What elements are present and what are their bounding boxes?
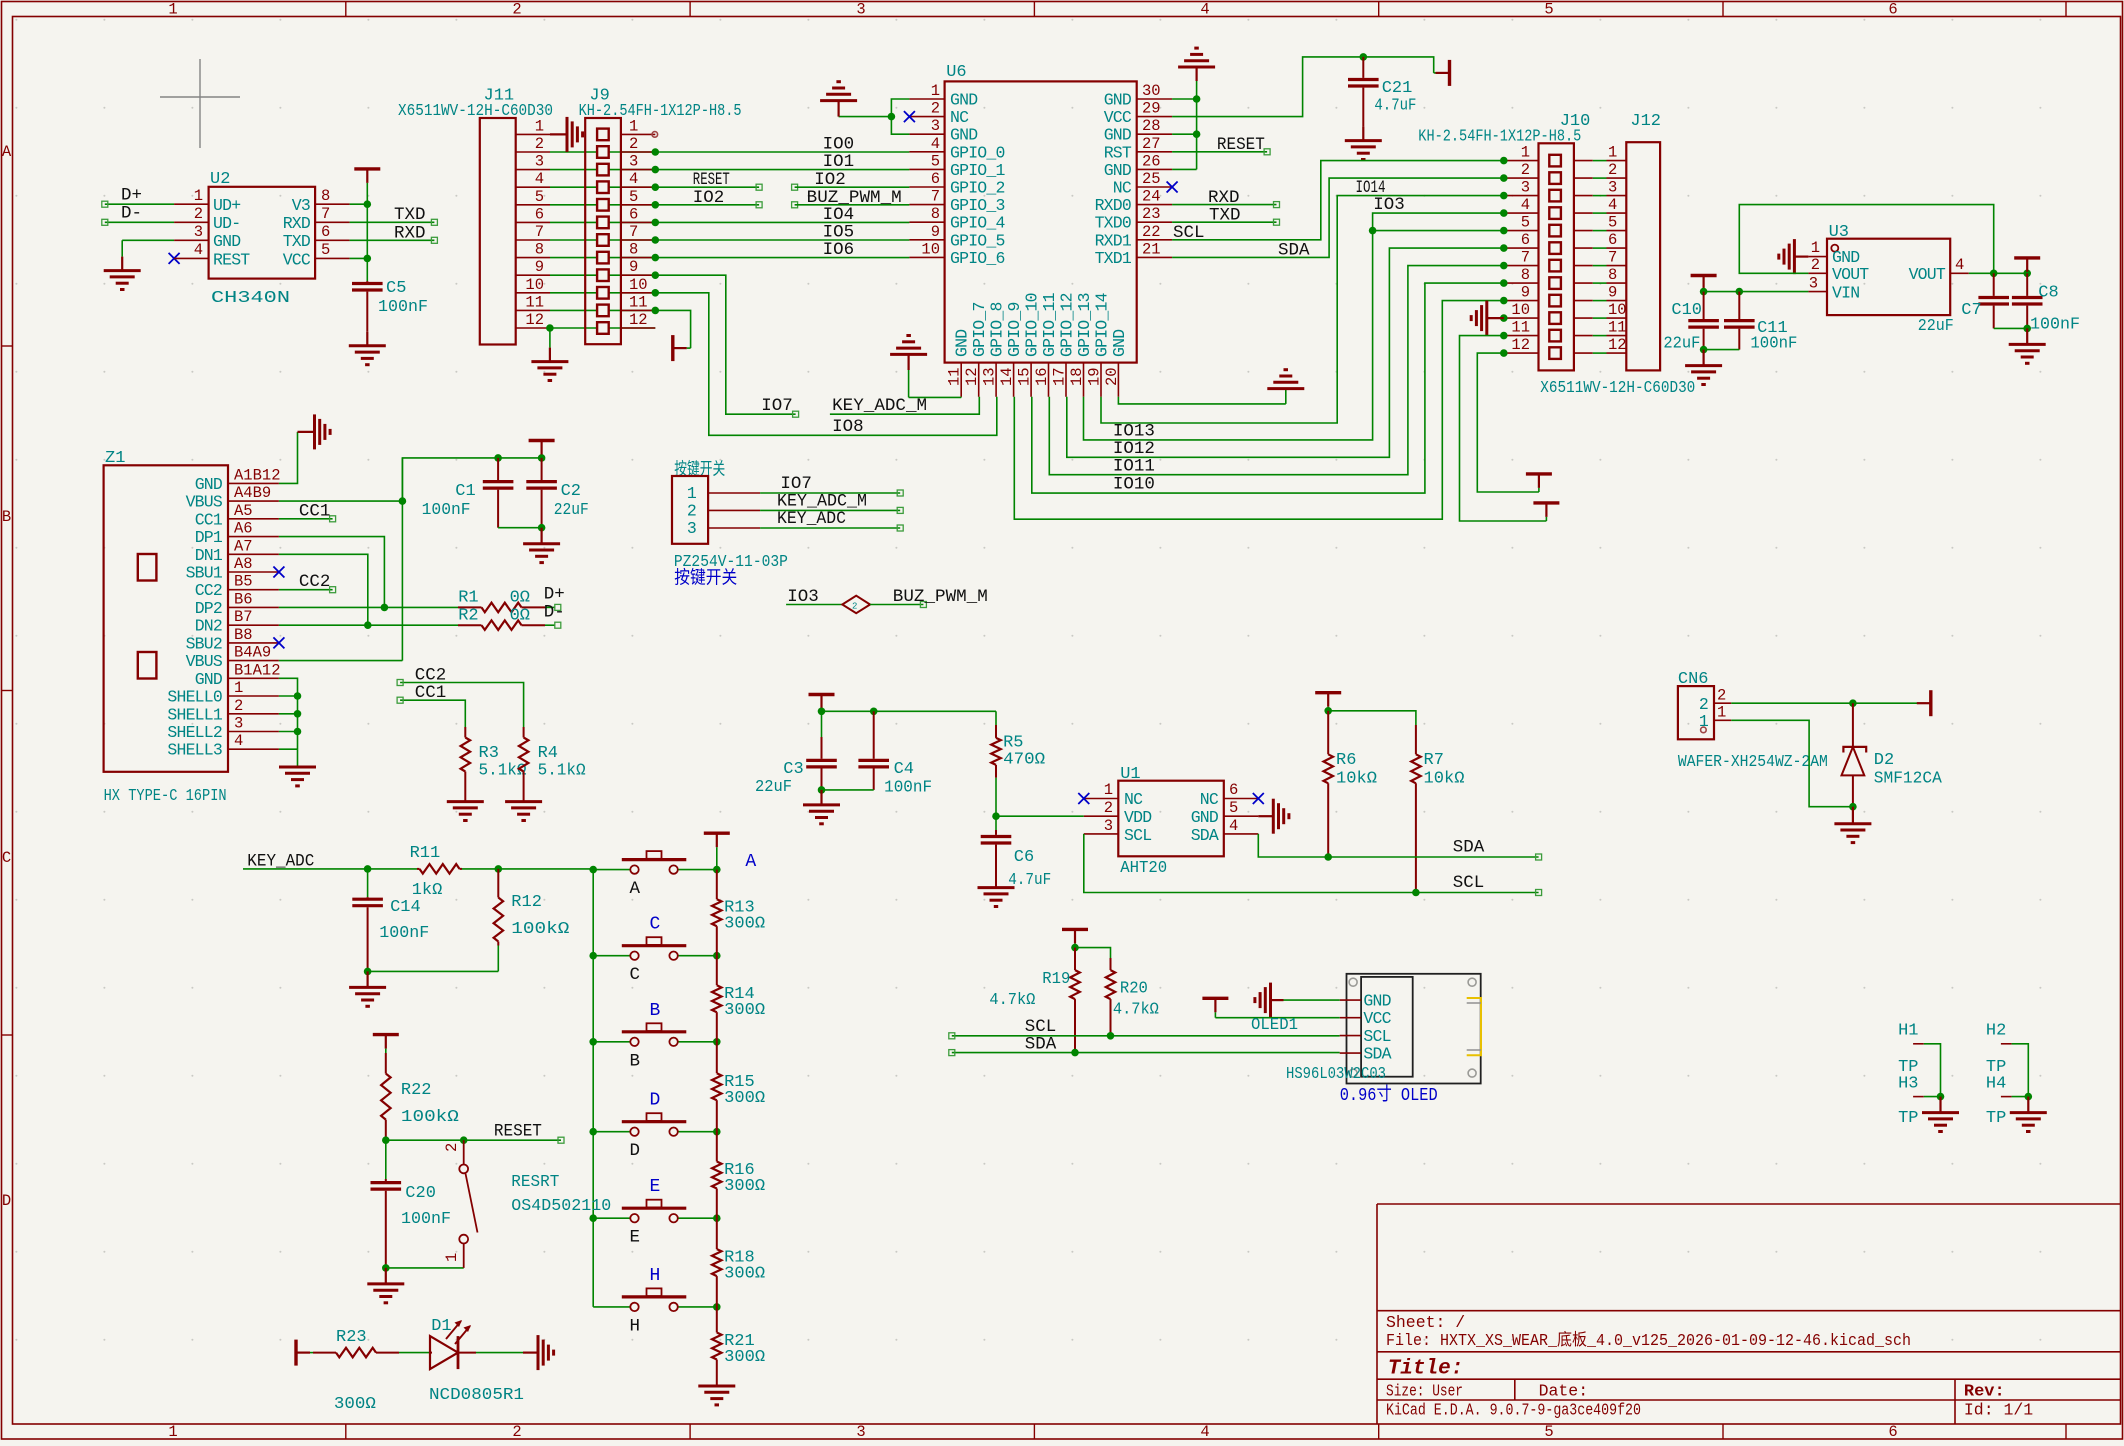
J11 pin numbers [525, 117, 544, 329]
U1 reference [1120, 765, 1140, 784]
svg-text:GND: GND [1191, 808, 1219, 827]
ground below SHELL [279, 749, 316, 786]
connector J11 reference [484, 87, 515, 106]
svg-text:SBU2: SBU2 [186, 634, 222, 653]
label IO2 right [814, 170, 846, 190]
R7 reference [1424, 751, 1444, 770]
svg-text:4: 4 [1955, 256, 1964, 274]
junction VDD node [992, 812, 1000, 820]
svg-text:C3: C3 [783, 760, 803, 779]
wire C3-C4 bottom [822, 789, 874, 791]
svg-text:KEY_ADC: KEY_ADC [777, 509, 846, 529]
svg-text:3: 3 [1608, 179, 1617, 197]
wire CC2 to R4 [397, 680, 523, 728]
wire DN1 [279, 554, 368, 625]
svg-text:GPIO_11: GPIO_11 [1040, 292, 1059, 357]
svg-text:2: 2 [931, 100, 940, 118]
svg-text:GPIO_8: GPIO_8 [988, 302, 1007, 357]
svg-text:SCL: SCL [1124, 826, 1151, 845]
svg-text:C: C [630, 965, 641, 985]
title date [1539, 1382, 1589, 1401]
svg-text:TXD1: TXD1 [1095, 249, 1132, 268]
svg-text:2: 2 [1104, 799, 1113, 817]
resistor R21 [712, 1307, 722, 1385]
svg-text:22uF: 22uF [554, 501, 589, 520]
svg-text:6: 6 [629, 205, 638, 223]
wire D- to U2 pin2 [102, 219, 174, 225]
svg-text:29: 29 [1142, 100, 1161, 118]
label D+ [121, 186, 142, 206]
svg-text:D: D [650, 1091, 661, 1111]
left rail buttons [592, 869, 594, 1307]
junction C3 top [818, 708, 826, 716]
svg-text:R6: R6 [1336, 751, 1356, 770]
svg-text:RXD1: RXD1 [1095, 231, 1132, 250]
svg-text:NC: NC [1124, 790, 1143, 809]
label B blue [650, 1001, 661, 1021]
svg-text:C5: C5 [386, 279, 406, 298]
svg-text:Id: 1/1: Id: 1/1 [1964, 1401, 2033, 1420]
svg-text:H3: H3 [1898, 1074, 1918, 1093]
svg-text:OS4D502110: OS4D502110 [511, 1197, 611, 1216]
label IO8 [832, 417, 864, 437]
Z1 pin names [167, 475, 223, 760]
svg-text:UD-: UD- [213, 214, 240, 233]
svg-text:3: 3 [629, 153, 638, 171]
U6 right pin numbers [1142, 82, 1161, 258]
label CC1 mid [415, 683, 447, 703]
resistor R15 [712, 1042, 722, 1132]
net tie diamond [842, 596, 870, 614]
origin crosshair [160, 59, 240, 148]
R1 value 0 [510, 589, 530, 608]
label SDA u6 [1278, 240, 1310, 260]
junction V3 rail [364, 200, 372, 208]
svg-text:R2: R2 [458, 607, 478, 626]
wire SDA U6.21 to J10.2 [1172, 178, 1504, 257]
switch pin1 number [443, 1253, 461, 1262]
svg-text:7: 7 [931, 188, 940, 206]
svg-text:13: 13 [981, 367, 999, 386]
svg-text:5: 5 [629, 188, 638, 206]
label IO13 [1113, 421, 1155, 441]
R2 value 0 [510, 607, 530, 626]
svg-text:H4: H4 [1986, 1074, 2006, 1093]
J10 value KH-2.54FH-1X12P-H8.5 [1418, 128, 1581, 147]
C8 reference [2038, 284, 2058, 303]
svg-text:12: 12 [629, 311, 648, 329]
U2 pin numbers [194, 187, 331, 259]
svg-text:SHELL3: SHELL3 [167, 741, 222, 760]
C10 value 22uF [1663, 335, 1700, 354]
U1 value AHT20 [1120, 859, 1167, 878]
wire U6 pin30 GND [1172, 98, 1197, 100]
ground flag right of D1 [523, 1335, 554, 1370]
svg-text:B7: B7 [234, 608, 253, 626]
svg-text:H: H [630, 1316, 641, 1336]
label IO5 [823, 223, 855, 243]
wire IO1 J9.3-U6.5 [655, 169, 909, 171]
C5 reference [386, 279, 406, 298]
U1 pin names [1124, 790, 1219, 845]
svg-text:B1A12: B1A12 [234, 661, 281, 679]
svg-text:DN2: DN2 [195, 617, 222, 636]
wire VDD to U1 [996, 815, 1084, 817]
display OLED1 [1340, 974, 1481, 1084]
U3 pin names [1832, 248, 1946, 303]
svg-text:2: 2 [1811, 256, 1820, 274]
svg-text:A: A [2, 143, 12, 161]
svg-text:22uF: 22uF [1663, 335, 1700, 354]
no-connect SBU1 [273, 567, 284, 578]
svg-text:V3: V3 [292, 196, 310, 215]
svg-text:4: 4 [629, 170, 638, 188]
svg-text:4: 4 [234, 732, 243, 750]
power bar right of CN6 [1917, 690, 1931, 716]
svg-text:VBUS: VBUS [186, 493, 223, 512]
C6 reference [1014, 848, 1034, 867]
svg-text:GPIO_1: GPIO_1 [950, 161, 1006, 180]
junction C8 top [2023, 270, 2031, 278]
junction RESET node [382, 1136, 390, 1144]
R4 value 5.1k [538, 762, 586, 781]
R20 reference [1120, 980, 1148, 999]
wires button left contacts [593, 870, 630, 1307]
svg-text:3: 3 [535, 153, 544, 171]
svg-text:GPIO_2: GPIO_2 [950, 179, 1005, 198]
svg-text:4: 4 [1200, 1423, 1209, 1441]
power flag above R6 [1315, 693, 1341, 711]
label TXD right [1209, 206, 1241, 226]
switch RESRT [459, 1140, 477, 1268]
svg-text:D1: D1 [431, 1317, 451, 1336]
junction D2 bottom [1849, 803, 1857, 811]
label KEY_ADC sw [777, 509, 846, 529]
R4 reference [538, 744, 558, 763]
svg-text:R23: R23 [336, 1328, 367, 1347]
C7 value 22uF [1918, 317, 1954, 336]
wire IO7 from J9.9 [655, 275, 798, 417]
svg-text:100nF: 100nF [1750, 335, 1797, 354]
junction C10 VIN [1700, 288, 1708, 296]
wire KEY_ADC_M U6 pin12 [830, 397, 979, 414]
R21 value 300 [724, 1348, 765, 1367]
C21 reference [1382, 79, 1413, 98]
wire TXD from U6 [1172, 219, 1279, 225]
resistor R5 [991, 711, 1001, 816]
svg-text:SHELL0: SHELL0 [167, 688, 222, 707]
label KEY_ADC_M sw [777, 492, 867, 512]
svg-text:D-: D- [544, 602, 565, 622]
svg-text:300Ω: 300Ω [724, 1177, 765, 1196]
svg-text:2: 2 [512, 1, 521, 19]
R14 reference [724, 985, 755, 1004]
label E blue [650, 1177, 661, 1197]
svg-text:28: 28 [1142, 117, 1161, 135]
svg-text:U2: U2 [210, 170, 230, 189]
wire VBUS A4B9 [279, 500, 403, 502]
power flag above R22 [373, 1035, 399, 1053]
svg-text:B8: B8 [234, 626, 253, 644]
svg-text:GND: GND [1110, 329, 1129, 357]
wire TXD from U2 RXD [350, 219, 438, 225]
svg-text:2: 2 [1717, 687, 1726, 705]
svg-text:3: 3 [234, 715, 243, 733]
svg-text:5: 5 [1521, 214, 1530, 232]
inverted ground U6 pin20 [1267, 370, 1304, 404]
wire U6 pin14 to J10.9 [1014, 301, 1504, 520]
svg-text:23: 23 [1142, 205, 1161, 223]
PZ254V field label [674, 460, 725, 481]
resistor R13 [712, 870, 722, 956]
wire D+ to U2 pin1 [102, 201, 174, 207]
svg-text:6: 6 [1888, 1423, 1897, 1441]
R19 value 4.7k [989, 991, 1035, 1010]
svg-text:C: C [2, 849, 11, 867]
junction D2 top [1849, 699, 1857, 707]
wire IO5 J9.7-U6.9 [655, 239, 909, 241]
J11 value X6511WV-12H-C60D30 [398, 102, 553, 121]
svg-text:8: 8 [321, 187, 330, 205]
ground below R3 [447, 782, 484, 821]
R20 value 4.7k [1113, 1001, 1159, 1020]
svg-text:AHT20: AHT20 [1120, 859, 1167, 878]
C8 value 100nF [2030, 316, 2080, 335]
junction R19 SDA [1071, 1049, 1079, 1057]
label E small [630, 1228, 641, 1248]
svg-text:REST: REST [213, 251, 250, 270]
ground below J11 pin12 [531, 348, 568, 381]
label BUZ_PWM_M upper [807, 188, 902, 208]
svg-text:SDA: SDA [1278, 240, 1310, 260]
svg-text:C2: C2 [561, 482, 581, 501]
svg-text:VIN: VIN [1832, 284, 1859, 303]
svg-text:GPIO_12: GPIO_12 [1058, 293, 1077, 357]
power flag above C3 [809, 695, 835, 712]
wire IO0 J9.2-U6.4 [655, 151, 909, 153]
wire RESET from J9.4 [655, 184, 762, 190]
wire R6-R7 top rail [1328, 711, 1416, 725]
wire CN6 pin1 loop [1731, 720, 1853, 806]
svg-text:U1: U1 [1120, 765, 1140, 784]
PZ254V description blue [674, 568, 737, 590]
svg-text:4: 4 [1608, 196, 1617, 214]
C1 reference [455, 482, 475, 501]
svg-text:11: 11 [946, 367, 964, 386]
svg-text:GPIO_10: GPIO_10 [1023, 293, 1042, 357]
wire J10.11 to power [1460, 336, 1547, 521]
connector CN6 [1678, 686, 1731, 739]
svg-text:WAFER-XH254WZ-2AM: WAFER-XH254WZ-2AM [1678, 753, 1828, 772]
svg-text:IO6: IO6 [823, 240, 855, 260]
svg-text:C10: C10 [1671, 301, 1702, 320]
svg-text:4.7uF: 4.7uF [1008, 871, 1051, 890]
svg-text:12: 12 [963, 367, 981, 386]
svg-text:1: 1 [234, 679, 243, 697]
junction C10 bottom [1700, 346, 1708, 354]
svg-text:3: 3 [856, 1423, 865, 1441]
svg-text:GND: GND [950, 91, 978, 110]
junction DP joint [381, 604, 389, 612]
svg-text:5: 5 [931, 152, 940, 170]
svg-text:3: 3 [1521, 179, 1530, 197]
svg-text:SDA: SDA [1025, 1034, 1057, 1054]
wire U2 V3 to rail [350, 203, 368, 205]
wire U3 VOUT loop [1739, 205, 1993, 274]
svg-text:D+: D+ [121, 186, 142, 206]
svg-text:GPIO_7: GPIO_7 [970, 302, 989, 357]
svg-text:20: 20 [1103, 367, 1121, 386]
switch D [622, 1113, 687, 1136]
R3 reference [479, 744, 499, 763]
power flag above C5 rail [354, 169, 380, 204]
label D- [121, 204, 142, 224]
junction IO3 branch [1369, 227, 1377, 235]
svg-text:14: 14 [998, 367, 1016, 386]
svg-text:1: 1 [168, 1423, 177, 1441]
svg-text:9: 9 [1608, 284, 1617, 302]
svg-text:10: 10 [629, 276, 648, 294]
power flag at J10.11 feed [1533, 503, 1559, 521]
no-connect U6 pin25 [1167, 182, 1178, 193]
U3 reference [1829, 223, 1849, 242]
svg-text:6: 6 [931, 170, 940, 188]
svg-text:CN6: CN6 [1678, 670, 1709, 689]
svg-text:7: 7 [629, 223, 638, 241]
resistor R19 [1070, 948, 1080, 1053]
svg-text:C6: C6 [1014, 848, 1034, 867]
R11 reference [410, 844, 441, 863]
label RESET right [1217, 135, 1265, 155]
label D- r2 [544, 602, 565, 622]
svg-text:File: HXTX_XS_WEAR_底板_4.0_v125: File: HXTX_XS_WEAR_底板_4.0_v125_2026-01-0… [1386, 1330, 1911, 1350]
svg-text:7: 7 [535, 223, 544, 241]
svg-text:12: 12 [525, 311, 544, 329]
wires J11 to J9 rows [550, 152, 655, 328]
testpoint H3 [1898, 1074, 1944, 1128]
svg-text:5: 5 [1229, 799, 1238, 817]
wire U6 pin11 gnd [909, 396, 962, 399]
svg-text:300Ω: 300Ω [724, 1348, 765, 1367]
wire DP1 [279, 537, 385, 608]
resistor R11 [417, 864, 593, 874]
power flag above R19 [1062, 929, 1088, 947]
C11 reference [1757, 319, 1788, 338]
svg-text:CC1: CC1 [195, 510, 223, 529]
C2 reference [561, 482, 581, 501]
connector J10 [1504, 143, 1593, 370]
svg-text:TXD: TXD [1209, 206, 1241, 226]
svg-text:19: 19 [1086, 367, 1104, 386]
svg-text:E: E [650, 1177, 661, 1197]
svg-text:2: 2 [852, 602, 857, 612]
title sheet line [1386, 1313, 1465, 1332]
wire D1 to gnd [476, 1352, 523, 1354]
U6 reference [946, 63, 966, 82]
J10 pin numbers [1511, 144, 1530, 355]
svg-text:TXD: TXD [394, 205, 426, 225]
capacitor C21 [1348, 57, 1379, 127]
svg-text:0Ω: 0Ω [510, 607, 530, 626]
svg-text:Size: User: Size: User [1386, 1382, 1463, 1401]
svg-text:27: 27 [1142, 135, 1161, 153]
svg-text:GPIO_3: GPIO_3 [950, 196, 1005, 215]
svg-text:E: E [630, 1228, 641, 1248]
junction C4 top [870, 708, 878, 716]
title file line [1386, 1330, 1911, 1350]
svg-text:D+: D+ [544, 584, 565, 604]
wire CC1 to R3 [397, 697, 465, 727]
junction VBUS [399, 497, 407, 505]
svg-text:GND: GND [195, 670, 223, 689]
svg-text:9: 9 [931, 223, 940, 241]
label D+ r1 [544, 584, 565, 604]
label B small [630, 1051, 641, 1071]
svg-text:1: 1 [535, 117, 544, 135]
junction C2 top [538, 454, 546, 462]
junction DN joint [364, 621, 372, 629]
svg-text:VCC: VCC [1104, 108, 1132, 127]
label RESET low [494, 1122, 542, 1142]
J9 value KH-2.54FH-1X12P-H8.5 [579, 102, 742, 121]
svg-text:5: 5 [1608, 214, 1617, 232]
wire DN2 to R2 [279, 624, 458, 626]
label SDA out [1453, 838, 1485, 858]
svg-text:DN1: DN1 [195, 546, 223, 565]
svg-text:A7: A7 [234, 537, 253, 555]
wire U2 GND pin3 [122, 240, 174, 256]
wire SCL out [1416, 890, 1542, 896]
wire IO3 to net tie [786, 604, 842, 606]
U6 left pin names [950, 91, 1006, 268]
label IO0 [823, 135, 855, 155]
label IO6 [823, 240, 855, 260]
svg-text:300Ω: 300Ω [724, 1089, 765, 1108]
svg-text:SBU1: SBU1 [186, 564, 223, 583]
wire U3 VOUT pin4 rail [1969, 272, 2027, 274]
C11 value 100nF [1750, 335, 1797, 354]
wire RESET row [386, 1137, 564, 1143]
svg-text:SCL: SCL [1173, 223, 1205, 243]
inverted ground U6 left [820, 82, 857, 117]
svg-text:TXD: TXD [283, 232, 311, 251]
wires button right contacts [678, 870, 717, 1307]
capacitor C8 [2012, 273, 2043, 328]
svg-text:3: 3 [856, 1, 865, 19]
svg-text:VOUT: VOUT [1909, 265, 1946, 284]
wire IO8 J9.10 to U6 pin13 [655, 293, 997, 436]
svg-text:0.96寸 OLED: 0.96寸 OLED [1340, 1084, 1438, 1106]
svg-text:BUZ_PWM_M: BUZ_PWM_M [893, 587, 988, 607]
capacitor C20 [371, 1140, 402, 1268]
svg-text:3: 3 [931, 117, 940, 135]
svg-text:IO12: IO12 [1113, 439, 1155, 459]
svg-text:RXD0: RXD0 [1095, 196, 1131, 215]
svg-text:2: 2 [535, 135, 544, 153]
wire R1 to D+ [555, 604, 561, 610]
svg-text:8: 8 [535, 241, 544, 259]
wire R2 to D- [555, 622, 561, 628]
junction C21 top [1360, 53, 1368, 61]
svg-text:GND: GND [1104, 91, 1132, 110]
svg-text:B6: B6 [234, 590, 253, 608]
resistor R3 [461, 727, 471, 782]
svg-text:5.1kΩ: 5.1kΩ [479, 762, 527, 781]
svg-text:CC1: CC1 [415, 683, 447, 703]
svg-text:A1B12: A1B12 [234, 466, 281, 484]
wire IO11 U6 pin16 to J10.7 [1049, 266, 1504, 475]
svg-text:D: D [2, 1192, 11, 1210]
